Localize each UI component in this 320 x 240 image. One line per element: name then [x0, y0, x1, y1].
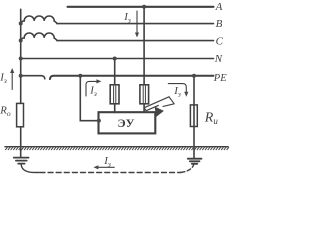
svg-text:Iз: Iз	[0, 72, 7, 86]
svg-text:B: B	[216, 18, 223, 30]
svg-text:Rи: Rи	[204, 111, 219, 127]
svg-text:Iз: Iз	[89, 85, 97, 99]
svg-text:PE: PE	[213, 73, 227, 84]
svg-text:Iз: Iз	[123, 11, 131, 25]
svg-text:C: C	[216, 35, 224, 47]
svg-text:Iз: Iз	[103, 155, 111, 169]
svg-text:Ro: Ro	[0, 104, 11, 118]
svg-text:N: N	[214, 53, 223, 65]
svg-text:A: A	[215, 1, 223, 13]
svg-text:ЭУ: ЭУ	[118, 116, 135, 130]
svg-text:Iз: Iз	[173, 85, 181, 99]
